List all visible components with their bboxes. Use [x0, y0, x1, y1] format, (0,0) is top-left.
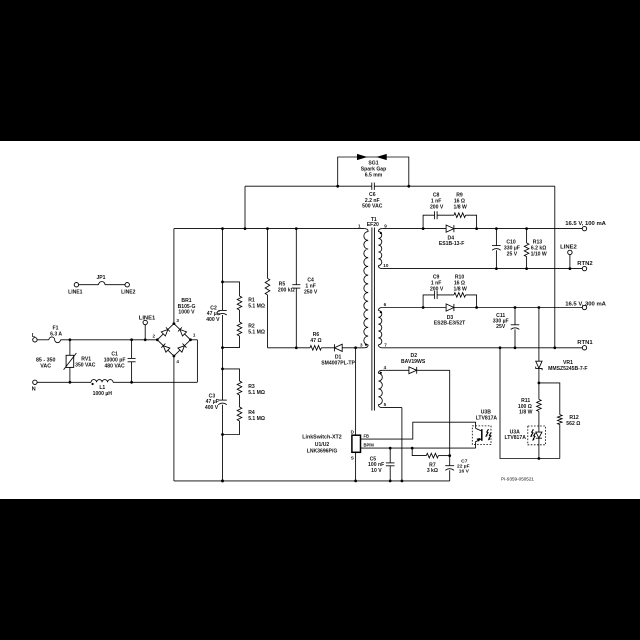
- svg-text:25 V: 25 V: [507, 251, 518, 257]
- svg-text:10: 10: [383, 263, 389, 268]
- svg-text:RTN2: RTN2: [577, 261, 593, 267]
- svg-text:6: 6: [384, 302, 387, 307]
- svg-text:1: 1: [193, 333, 196, 338]
- svg-text:5: 5: [384, 402, 387, 407]
- svg-text:562 Ω: 562 Ω: [566, 421, 580, 427]
- svg-text:5.1 MΩ: 5.1 MΩ: [248, 304, 265, 310]
- svg-text:SM4007PL-TP: SM4007PL-TP: [321, 360, 355, 366]
- svg-text:5.1 MΩ: 5.1 MΩ: [248, 329, 265, 335]
- svg-text:400 V: 400 V: [206, 317, 220, 323]
- svg-text:1/8 W: 1/8 W: [454, 204, 467, 210]
- svg-text:4: 4: [384, 365, 387, 370]
- svg-text:16 V: 16 V: [459, 469, 470, 475]
- svg-text:85 - 350: 85 - 350: [36, 357, 55, 363]
- svg-text:200 V: 200 V: [430, 286, 444, 292]
- svg-text:FB: FB: [364, 434, 370, 439]
- svg-text:3: 3: [176, 318, 179, 323]
- svg-text:LTV817A: LTV817A: [476, 416, 498, 422]
- svg-text:10 V: 10 V: [371, 468, 382, 474]
- svg-text:MMSZ5245B-7-F: MMSZ5245B-7-F: [548, 366, 587, 372]
- svg-text:47 Ω: 47 Ω: [310, 338, 321, 344]
- svg-text:500 VAC: 500 VAC: [362, 204, 383, 210]
- svg-text:BP/M: BP/M: [364, 443, 375, 448]
- svg-text:2: 2: [152, 334, 155, 339]
- svg-text:1/8 W: 1/8 W: [454, 286, 467, 292]
- svg-text:6.5 mm: 6.5 mm: [365, 172, 383, 178]
- svg-text:RTN1: RTN1: [577, 340, 593, 346]
- svg-text:LINE1: LINE1: [139, 316, 156, 322]
- svg-text:ES1B-13-F: ES1B-13-F: [439, 241, 464, 247]
- svg-text:5.1 MΩ: 5.1 MΩ: [248, 390, 265, 396]
- svg-text:LINE2: LINE2: [560, 245, 577, 251]
- svg-text:480 VAC: 480 VAC: [104, 363, 125, 369]
- svg-text:LTV817A: LTV817A: [504, 435, 526, 441]
- svg-text:VAC: VAC: [40, 364, 51, 370]
- svg-text:BAV19WS: BAV19WS: [401, 359, 426, 365]
- svg-text:S: S: [351, 456, 354, 461]
- svg-text:N: N: [32, 386, 36, 392]
- svg-text:4: 4: [176, 359, 179, 364]
- svg-text:200 kΩ: 200 kΩ: [278, 287, 295, 293]
- svg-text:U1/U2: U1/U2: [315, 442, 330, 448]
- svg-text:6.3 A: 6.3 A: [50, 331, 62, 337]
- svg-text:1/8 W: 1/8 W: [519, 410, 532, 416]
- svg-text:25V: 25V: [496, 324, 506, 330]
- svg-text:PI-9359-050521: PI-9359-050521: [501, 477, 534, 482]
- svg-text:16.5 V, 100 mA: 16.5 V, 100 mA: [565, 221, 606, 227]
- svg-text:1000 V: 1000 V: [178, 310, 195, 316]
- svg-text:L: L: [32, 333, 36, 339]
- svg-text:1: 1: [358, 224, 361, 229]
- svg-text:ES2B-E3/52T: ES2B-E3/52T: [434, 321, 466, 327]
- svg-text:9: 9: [384, 224, 387, 229]
- svg-text:LNK3696P/G: LNK3696P/G: [307, 448, 338, 454]
- svg-text:7: 7: [384, 342, 387, 347]
- svg-text:5.1 MΩ: 5.1 MΩ: [248, 416, 265, 422]
- svg-text:LINE2: LINE2: [121, 290, 136, 296]
- svg-text:LinkSwitch-XT2: LinkSwitch-XT2: [302, 435, 341, 441]
- svg-text:EF20: EF20: [367, 222, 379, 228]
- svg-text:200 V: 200 V: [430, 204, 444, 210]
- svg-text:400 V: 400 V: [205, 405, 219, 411]
- svg-text:1/10 W: 1/10 W: [531, 251, 547, 257]
- svg-text:350 VAC: 350 VAC: [75, 363, 96, 369]
- svg-text:3: 3: [360, 342, 363, 347]
- svg-text:250 V: 250 V: [304, 289, 318, 295]
- svg-text:1000 µH: 1000 µH: [93, 391, 113, 397]
- svg-text:LINE1: LINE1: [68, 290, 83, 296]
- svg-text:JP1: JP1: [96, 275, 105, 281]
- svg-text:16.5 V, 300 mA: 16.5 V, 300 mA: [565, 301, 606, 307]
- svg-text:3 kΩ: 3 kΩ: [427, 468, 438, 474]
